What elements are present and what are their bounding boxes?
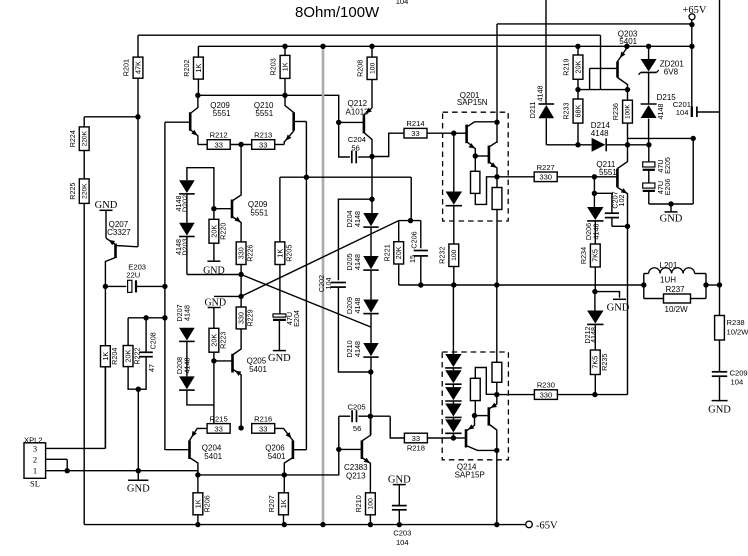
svg-text:3: 3	[33, 444, 37, 454]
svg-text:Q213: Q213	[346, 472, 366, 481]
svg-text:R218: R218	[407, 443, 425, 452]
svg-text:5551: 5551	[213, 109, 231, 118]
svg-text:R212: R212	[210, 131, 228, 140]
svg-text:A1013: A1013	[346, 108, 370, 117]
svg-text:5401: 5401	[204, 452, 222, 461]
svg-text:220K: 220K	[81, 183, 88, 199]
svg-text:104: 104	[731, 378, 744, 387]
svg-text:R214: R214	[406, 119, 424, 128]
svg-text:R227: R227	[537, 163, 555, 172]
svg-text:104: 104	[324, 278, 333, 290]
svg-text:R210: R210	[354, 495, 363, 512]
svg-text:GND: GND	[607, 303, 630, 314]
svg-text:R201: R201	[122, 59, 131, 76]
svg-text:330: 330	[236, 247, 245, 259]
svg-text:10/2W: 10/2W	[665, 305, 689, 314]
svg-text:15: 15	[408, 255, 417, 263]
svg-text:6V8: 6V8	[664, 68, 679, 77]
svg-text:33: 33	[259, 424, 267, 433]
svg-text:5401: 5401	[619, 37, 637, 46]
svg-text:1K: 1K	[275, 249, 284, 258]
svg-text:4148: 4148	[353, 254, 362, 270]
svg-text:100: 100	[451, 249, 458, 261]
svg-text:1K: 1K	[194, 64, 203, 73]
svg-text:4148: 4148	[353, 298, 362, 314]
svg-text:D202: D202	[180, 195, 189, 212]
svg-text:R215: R215	[210, 414, 228, 423]
svg-text:R223: R223	[218, 332, 227, 349]
svg-text:R224: R224	[68, 130, 77, 147]
svg-text:SAP15N: SAP15N	[457, 98, 488, 107]
svg-text:1: 1	[33, 466, 37, 476]
svg-text:20K: 20K	[394, 246, 403, 259]
svg-text:SL: SL	[30, 479, 40, 489]
svg-text:1K: 1K	[101, 352, 110, 361]
svg-text:C206: C206	[410, 231, 419, 248]
svg-text:1K: 1K	[193, 499, 202, 508]
svg-text:R238: R238	[727, 318, 745, 327]
svg-text:33: 33	[411, 129, 419, 138]
svg-text:330: 330	[236, 312, 245, 324]
svg-text:4148: 4148	[591, 129, 609, 138]
svg-text:1K: 1K	[280, 62, 289, 71]
svg-text:L201: L201	[660, 261, 678, 270]
svg-text:5551: 5551	[250, 209, 268, 218]
svg-text:R229: R229	[246, 309, 255, 326]
svg-text:R213: R213	[254, 131, 272, 140]
svg-text:R230: R230	[537, 381, 555, 390]
svg-text:E205: E205	[663, 157, 672, 174]
svg-text:330: 330	[540, 391, 553, 400]
svg-text:D203: D203	[180, 238, 189, 255]
svg-text:2: 2	[33, 455, 37, 465]
svg-text:220K: 220K	[81, 130, 88, 146]
svg-text:33: 33	[214, 140, 222, 149]
svg-text:5551: 5551	[255, 109, 273, 118]
svg-text:33: 33	[259, 140, 267, 149]
svg-text:5401: 5401	[268, 452, 286, 461]
svg-text:+65V: +65V	[683, 5, 707, 16]
svg-text:10/2W: 10/2W	[727, 328, 748, 337]
svg-text:R216: R216	[254, 414, 272, 423]
svg-text:33: 33	[412, 434, 420, 443]
svg-text:GND: GND	[660, 214, 683, 225]
svg-text:20K: 20K	[209, 225, 218, 238]
svg-text:GND: GND	[268, 353, 291, 364]
svg-text:20K: 20K	[209, 334, 218, 347]
svg-text:100: 100	[369, 62, 376, 74]
svg-text:R219: R219	[562, 59, 571, 76]
svg-text:5551: 5551	[599, 168, 617, 177]
svg-text:R220: R220	[218, 223, 227, 240]
svg-text:102: 102	[617, 195, 626, 207]
svg-text:R203: R203	[269, 58, 278, 75]
svg-text:R208: R208	[356, 60, 365, 77]
svg-text:E206: E206	[663, 179, 672, 196]
svg-text:C203: C203	[393, 529, 411, 538]
svg-text:22U: 22U	[126, 271, 140, 280]
svg-text:4148: 4148	[592, 224, 601, 240]
svg-text:104: 104	[396, 538, 409, 547]
svg-text:4148: 4148	[353, 211, 362, 227]
svg-text:104: 104	[396, 0, 409, 6]
svg-text:1UH: 1UH	[660, 276, 676, 285]
svg-text:GND: GND	[95, 200, 118, 211]
svg-text:R206: R206	[202, 495, 211, 512]
svg-text:7K5: 7K5	[591, 249, 600, 262]
svg-text:4148: 4148	[182, 305, 191, 321]
svg-text:47K: 47K	[133, 61, 142, 74]
svg-text:104: 104	[676, 108, 689, 117]
svg-text:100K: 100K	[625, 104, 632, 119]
svg-text:SAP15P: SAP15P	[455, 470, 485, 479]
svg-text:GND: GND	[708, 405, 731, 416]
svg-text:-65V: -65V	[536, 521, 558, 532]
svg-text:R202: R202	[182, 60, 191, 77]
svg-text:4148: 4148	[536, 86, 545, 102]
svg-text:47: 47	[147, 364, 156, 372]
svg-text:R235: R235	[600, 354, 609, 371]
svg-text:4148: 4148	[589, 327, 598, 343]
svg-text:C209: C209	[730, 369, 748, 378]
svg-text:R225: R225	[68, 183, 77, 200]
svg-text:330: 330	[539, 173, 552, 182]
svg-text:4148: 4148	[353, 341, 362, 357]
svg-text:R232: R232	[437, 247, 446, 264]
svg-text:R205: R205	[284, 245, 293, 262]
svg-text:R234: R234	[579, 247, 588, 264]
svg-text:8Ohm/100W: 8Ohm/100W	[295, 4, 380, 21]
svg-text:R226: R226	[246, 245, 255, 262]
svg-text:33: 33	[214, 424, 222, 433]
svg-text:C208: C208	[149, 332, 158, 349]
svg-text:4148: 4148	[656, 104, 665, 120]
svg-text:D211: D211	[528, 102, 537, 119]
svg-text:R236: R236	[611, 103, 620, 120]
svg-text:R207: R207	[267, 495, 276, 512]
svg-text:C3327: C3327	[107, 228, 131, 237]
svg-text:4148: 4148	[182, 358, 191, 374]
svg-text:56: 56	[353, 424, 361, 433]
svg-text:7K5: 7K5	[591, 356, 600, 369]
svg-text:R221: R221	[382, 244, 391, 261]
svg-text:20K: 20K	[123, 349, 132, 362]
svg-text:GND: GND	[203, 266, 225, 277]
svg-text:R233: R233	[562, 102, 571, 119]
svg-text:56: 56	[351, 143, 359, 152]
svg-text:R204: R204	[110, 348, 119, 365]
svg-text:E204: E204	[292, 310, 301, 327]
svg-text:20K: 20K	[573, 61, 582, 74]
svg-text:5401: 5401	[249, 365, 267, 374]
svg-text:GND: GND	[127, 484, 150, 495]
svg-text:68K: 68K	[573, 104, 582, 117]
svg-text:1K: 1K	[279, 499, 288, 508]
svg-text:C205: C205	[348, 403, 366, 412]
svg-text:R237: R237	[666, 285, 686, 294]
svg-text:100: 100	[368, 498, 375, 510]
